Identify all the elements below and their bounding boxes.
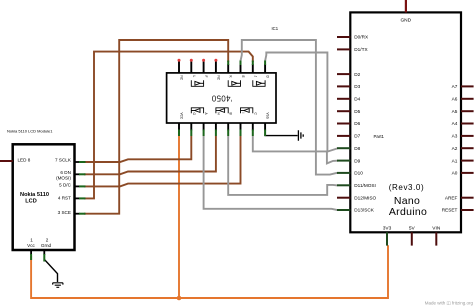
svg-text:D7: D7 — [354, 134, 360, 139]
svg-text:D9: D9 — [354, 158, 360, 163]
svg-text:A1: A1 — [452, 158, 458, 163]
svg-text:A5: A5 — [452, 109, 458, 114]
svg-text:Nokia 5110: Nokia 5110 — [20, 192, 49, 198]
svg-text:Made with ◫ fritzing.org: Made with ◫ fritzing.org — [425, 300, 474, 305]
svg-text:AREF: AREF — [445, 195, 458, 200]
svg-text:B: B — [229, 113, 233, 115]
svg-text:D8: D8 — [354, 146, 360, 151]
svg-text:NC: NC — [216, 76, 220, 81]
svg-text:D1/TX: D1/TX — [354, 47, 368, 52]
svg-text:A4: A4 — [452, 121, 458, 126]
svg-text:D0/RX: D0/RX — [354, 35, 369, 40]
svg-text:D3: D3 — [354, 84, 360, 89]
svg-text:3V3: 3V3 — [383, 225, 392, 231]
svg-text:1: 1 — [30, 238, 33, 243]
svg-text:D5: D5 — [354, 109, 360, 114]
svg-text:A7: A7 — [452, 84, 458, 89]
svg-text:2: 2 — [46, 238, 49, 243]
svg-text:IC1: IC1 — [272, 26, 279, 31]
svg-text:5V: 5V — [409, 225, 416, 231]
svg-text:D12/MISO: D12/MISO — [354, 195, 376, 200]
svg-text:’4050: ’4050 — [211, 93, 232, 102]
svg-text:I: I — [241, 113, 245, 114]
svg-text:A0: A0 — [452, 171, 458, 176]
svg-text:NC: NC — [180, 76, 184, 81]
svg-text:(MOSI): (MOSI) — [56, 176, 71, 181]
svg-text:D4: D4 — [354, 97, 360, 102]
svg-text:VSS: VSS — [266, 113, 270, 119]
svg-text:RESET: RESET — [442, 208, 458, 213]
svg-text:5 D/C: 5 D/C — [59, 182, 71, 187]
svg-text:D2: D2 — [354, 72, 360, 77]
svg-text:A6: A6 — [452, 97, 458, 102]
svg-text:3 SCE: 3 SCE — [58, 210, 71, 215]
svg-text:D6: D6 — [354, 121, 360, 126]
svg-text:A2: A2 — [452, 146, 458, 151]
svg-text:6 DN: 6 DN — [60, 170, 70, 175]
svg-text:LED 8: LED 8 — [18, 157, 31, 162]
svg-text:GND: GND — [400, 17, 411, 23]
svg-text:L: L — [192, 76, 196, 78]
svg-text:7 SCLK: 7 SCLK — [55, 158, 72, 163]
svg-text:D13/SCK: D13/SCK — [354, 208, 374, 213]
svg-text:VCC: VCC — [180, 113, 184, 120]
svg-text:Part1: Part1 — [374, 134, 385, 139]
svg-text:LCD: LCD — [25, 199, 37, 205]
svg-text:A3: A3 — [452, 134, 458, 139]
svg-text:4 RST: 4 RST — [58, 196, 71, 201]
svg-text:Nokia 5110 LCD Module1: Nokia 5110 LCD Module1 — [7, 128, 53, 133]
svg-text:D11/MOSI: D11/MOSI — [354, 183, 376, 188]
svg-text:Arduino: Arduino — [389, 206, 427, 218]
svg-text:VIN: VIN — [432, 225, 441, 231]
svg-text:(Rev3.0): (Rev3.0) — [389, 183, 424, 192]
svg-text:Vcc: Vcc — [27, 243, 35, 248]
svg-text:E: E — [241, 76, 245, 78]
svg-text:Grnd: Grnd — [41, 243, 52, 248]
svg-text:D10: D10 — [354, 171, 363, 176]
svg-text:F: F — [204, 76, 208, 78]
